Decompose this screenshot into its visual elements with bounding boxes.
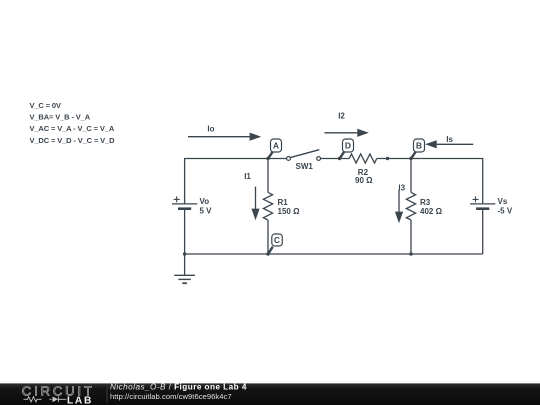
junction R3 bottom — [409, 252, 412, 255]
svg-text:V_DC = V_D - V_C = V_D: V_DC = V_D - V_C = V_D — [30, 136, 116, 145]
wire R3 to bottom rail — [410, 220, 412, 254]
wire below Vs to bottom rail — [482, 209, 484, 254]
svg-text:-5 V: -5 V — [498, 207, 513, 216]
svg-text:I3: I3 — [398, 184, 405, 193]
footer logo squiggle — [24, 397, 67, 403]
svg-text:R1: R1 — [278, 198, 289, 207]
wire node B down to R3 — [410, 159, 412, 193]
voltage source Vo — [172, 196, 212, 215]
wire R2 to node B to right rail — [377, 159, 483, 205]
resistor R1 labels — [278, 198, 301, 216]
svg-text:I2: I2 — [338, 111, 345, 120]
junction dot after R2 — [386, 157, 389, 160]
ground — [174, 254, 195, 283]
svg-text:C: C — [274, 235, 280, 245]
node A — [266, 139, 281, 160]
svg-text:90 Ω: 90 Ω — [355, 176, 373, 185]
current arrow I3 — [395, 184, 406, 224]
svg-text:V_C = 0V: V_C = 0V — [30, 101, 61, 110]
svg-text:SW1: SW1 — [296, 162, 314, 171]
footer bar — [0, 383, 540, 405]
resistor R3 labels — [420, 198, 443, 216]
svg-text:LAB: LAB — [67, 395, 93, 405]
svg-text:150 Ω: 150 Ω — [278, 207, 301, 216]
current arrow I1 — [244, 172, 259, 220]
svg-text:http://circuitlab.com/cw9t6ce9: http://circuitlab.com/cw9t6ce96k4c7 — [110, 392, 232, 401]
svg-text:Vs: Vs — [498, 197, 508, 206]
svg-text:V_BA= V_B - V_A: V_BA= V_B - V_A — [30, 113, 91, 122]
annotation node voltage equations — [30, 101, 116, 145]
svg-text:I1: I1 — [244, 172, 251, 181]
svg-text:Vo: Vo — [200, 197, 210, 206]
svg-text:Is: Is — [446, 135, 453, 144]
node B — [409, 139, 424, 160]
wire R1 to node C — [267, 220, 269, 254]
wire below Vo — [184, 209, 186, 254]
resistor R2 body — [349, 154, 377, 163]
svg-text:D: D — [345, 141, 351, 151]
junction ground node — [183, 252, 186, 255]
wire top rail left: A node segment — [185, 159, 287, 204]
svg-text:B: B — [416, 141, 422, 151]
svg-text:Io: Io — [207, 125, 214, 134]
wire bottom rail — [185, 253, 483, 255]
current arrow Is — [425, 135, 473, 149]
resistor R2 labels — [355, 168, 373, 185]
svg-text:R3: R3 — [420, 198, 431, 207]
current arrow Io — [188, 125, 261, 141]
switch SW1 — [287, 150, 321, 171]
current arrow I2 — [324, 111, 369, 137]
node D — [338, 139, 354, 160]
resistor R1 body — [263, 192, 272, 220]
svg-text:Nicholas_O-B / Figure one Lab: Nicholas_O-B / Figure one Lab 4 — [110, 383, 247, 392]
voltage source Vs — [470, 196, 513, 215]
svg-text:402 Ω: 402 Ω — [420, 207, 443, 216]
svg-text:V_AC = V_A - V_C = V_A: V_AC = V_A - V_C = V_A — [30, 124, 115, 133]
svg-text:A: A — [273, 141, 279, 151]
resistor R3 body — [406, 192, 415, 220]
node C — [266, 234, 282, 256]
svg-text:5 V: 5 V — [200, 207, 213, 216]
wire switch to R2 (node D segment) — [321, 158, 350, 160]
wire node A down to R1 — [267, 159, 269, 193]
